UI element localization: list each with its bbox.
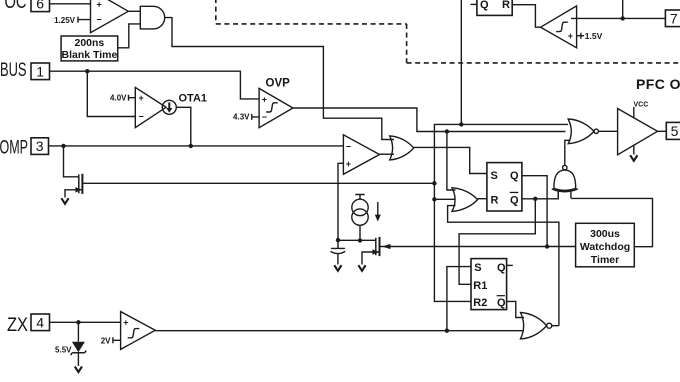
svg-text:5: 5 xyxy=(671,123,679,139)
wire U5 minus input from node xyxy=(571,17,665,19)
wire OR1 output to FF1 S xyxy=(414,147,487,173)
wire blank time box to AND input xyxy=(118,24,141,48)
wire NOR3 output to buffer xyxy=(598,130,617,132)
svg-text:BUS: BUS xyxy=(0,60,26,81)
node ZX line junction xyxy=(445,329,449,333)
ground under M2 xyxy=(358,265,365,271)
wire FF0 Q vertical down xyxy=(460,0,462,124)
node B (OVP line tee) xyxy=(445,129,449,133)
svg-text:R: R xyxy=(491,194,499,206)
pin box 1 xyxy=(31,63,50,80)
svg-text:Watchdog: Watchdog xyxy=(580,241,630,253)
dashed boundary vertical segment 2 xyxy=(406,24,408,63)
pin box 5 xyxy=(666,122,680,139)
svg-text:Blank Time: Blank Time xyxy=(61,49,117,61)
ground under C1 xyxy=(334,265,341,271)
svg-text:VCC: VCC xyxy=(634,102,649,109)
svg-text:−: − xyxy=(97,14,102,24)
svg-text:4.0V: 4.0V xyxy=(110,94,127,103)
flip-flop FF0 (top, cut off) xyxy=(477,0,512,15)
wire FF1 Q output down to watchdog line xyxy=(522,176,547,247)
svg-text:Q: Q xyxy=(497,262,506,274)
svg-text:Q: Q xyxy=(497,297,506,309)
pin box 7 xyxy=(665,10,680,27)
wire FF2 S input from ZX line xyxy=(447,267,471,331)
svg-text:R1: R1 xyxy=(473,280,487,292)
XNOR gate X1 (vertical) xyxy=(554,170,576,190)
300us watchdog timer box xyxy=(576,223,635,266)
svg-text:−: − xyxy=(346,142,351,152)
comparator U5 (1.5V, points left) xyxy=(541,6,577,48)
node FF1 Qbar junction xyxy=(533,197,537,201)
svg-text:R2: R2 xyxy=(473,297,487,309)
svg-text:−: − xyxy=(262,112,267,122)
svg-text:Q: Q xyxy=(510,194,519,206)
svg-text:+: + xyxy=(262,95,267,105)
svg-text:4.3V: 4.3V xyxy=(233,113,250,122)
wire U3 output to OR1 xyxy=(380,153,395,155)
svg-text:Q: Q xyxy=(510,170,519,182)
node watchdog line junction xyxy=(545,244,549,248)
svg-text:PFC OUT: PFC OUT xyxy=(636,76,680,92)
svg-text:2V: 2V xyxy=(101,336,111,345)
wire OR2 middle input xyxy=(434,198,455,200)
wire COMP line xyxy=(49,145,344,147)
node OR2 middle input junction xyxy=(432,197,436,201)
dashed boundary horizontal segment 2 xyxy=(407,62,680,64)
wire buffer to pin 5 xyxy=(658,130,667,132)
wire node A left and down (main Q net) xyxy=(434,124,471,301)
flip-flop FF2 (S/R1/R2) xyxy=(471,259,507,310)
wire stub left of FF0 xyxy=(471,3,477,5)
node OTA output junction xyxy=(189,144,193,148)
svg-text:S: S xyxy=(474,262,481,274)
svg-text:+: + xyxy=(346,159,351,169)
svg-text:+: + xyxy=(568,31,573,41)
wire U3 plus input down to cap node xyxy=(338,163,343,240)
NOR gate NOR2 xyxy=(521,313,547,339)
wire BUS line to OVP xyxy=(50,71,260,99)
wire ZX pin to comparator xyxy=(50,321,121,323)
arrow beside current source xyxy=(377,202,379,215)
label 1.5V xyxy=(577,33,584,39)
dashed boundary horizontal segment xyxy=(216,23,407,25)
ground under zener xyxy=(75,367,82,373)
wire node A to NOR3 top input xyxy=(461,123,568,125)
wire M2 drain to watchdog line xyxy=(380,246,576,248)
wire comparator to AND gate xyxy=(128,10,140,12)
ground under M1 xyxy=(61,198,68,204)
svg-text:1: 1 xyxy=(36,63,44,79)
comparator U3 (PWM) xyxy=(343,135,379,175)
svg-text:OMP: OMP xyxy=(0,137,28,158)
svg-text:OC: OC xyxy=(5,0,27,13)
node M1 drain junction xyxy=(432,181,436,185)
OR gate OR1 xyxy=(390,136,414,160)
svg-text:+: + xyxy=(123,317,128,327)
svg-text:3: 3 xyxy=(36,138,44,154)
comparator U6 (ZX, 2V) xyxy=(121,312,156,350)
wire junction up xyxy=(622,0,624,18)
arrowhead into M2 drain xyxy=(382,244,391,249)
ground under buffer xyxy=(633,145,635,154)
svg-text:300us: 300us xyxy=(590,228,620,240)
buffer U4 (gate driver) xyxy=(618,109,658,155)
svg-text:+: + xyxy=(97,0,102,9)
wire cap node to M2 gate xyxy=(338,239,376,241)
svg-text:OTA1: OTA1 xyxy=(179,93,208,105)
pin box 6 xyxy=(31,0,50,12)
svg-text:1.5V: 1.5V xyxy=(585,31,603,41)
svg-text:6: 6 xyxy=(36,0,44,11)
pin box 3 xyxy=(31,138,49,155)
wire FF2 Qbar to NOR2 top input xyxy=(507,301,524,317)
svg-text:7: 7 xyxy=(670,10,678,26)
OR gate OR2 xyxy=(452,188,478,212)
node COMP junction xyxy=(61,144,65,148)
svg-text:ZX: ZX xyxy=(7,315,28,336)
current source I1 xyxy=(355,195,364,200)
wire XNOR output up to NOR3 bottom input xyxy=(565,140,571,165)
comparator OVP (4.3V) xyxy=(259,88,293,127)
wire pin6 to comparator xyxy=(50,3,91,5)
wire OVP output to NOR input (long) xyxy=(293,108,566,132)
wire FF1 Qbar output to XNOR left leg xyxy=(522,191,558,199)
svg-text:4: 4 xyxy=(36,314,44,330)
transistor M1 xyxy=(78,174,80,193)
svg-text:OVP: OVP xyxy=(266,78,291,90)
AND gate U2 xyxy=(140,6,164,29)
wire node B down to OR2 top input xyxy=(447,132,456,191)
wire ZX comparator output to NOR2 xyxy=(155,330,524,332)
wire OR2 bottom input from NOR2 output xyxy=(448,206,559,326)
svg-text:Q: Q xyxy=(480,0,489,11)
wire AND output to OR gate (long) xyxy=(165,18,394,140)
node BUS junction xyxy=(85,69,89,73)
wire COMP junction to MOSFET gate xyxy=(64,146,79,177)
wire OTA1 output to COMP line xyxy=(176,107,191,146)
op-amp OTA1 xyxy=(135,87,166,127)
svg-text:Timer: Timer xyxy=(591,254,619,266)
node pin7 junction xyxy=(621,16,625,20)
node cap junction xyxy=(336,238,340,242)
zener diode D1 5.5V xyxy=(77,322,79,341)
svg-text:200ns: 200ns xyxy=(75,37,105,49)
svg-text:S: S xyxy=(491,170,498,182)
wire OR2 output to FF1 R xyxy=(478,198,487,200)
wire XNOR right leg to watchdog output xyxy=(571,198,652,246)
pin box 4 xyxy=(31,314,50,331)
NOR gate NOR3 (driver) xyxy=(568,119,594,144)
wire Qbar junction down to FF2 R1 xyxy=(459,199,535,284)
svg-text:−: − xyxy=(139,112,144,122)
dashed boundary vertical segment xyxy=(215,0,217,24)
svg-text:+: + xyxy=(139,93,144,103)
node A (FF0 Q line tee) xyxy=(459,122,463,126)
flip-flop FF1 (S/R) xyxy=(487,163,522,211)
svg-text:1.25V: 1.25V xyxy=(54,16,76,25)
wire stub FF2 Q xyxy=(507,264,513,266)
200ns blank time box xyxy=(61,36,118,61)
comparator U1 (OC, 1.25V) top cut off xyxy=(91,0,129,33)
transistor M2 xyxy=(375,238,377,255)
wire NOR2 output up (drawn with OR2 input path) xyxy=(552,325,559,327)
wire FF0 R input from comparator U5 xyxy=(512,5,540,28)
wire BUS junction down to OTA1 input xyxy=(87,71,135,116)
node current source junction xyxy=(358,238,362,242)
svg-text:R: R xyxy=(502,0,510,11)
capacitor C1 xyxy=(331,240,346,264)
svg-text:5.5V: 5.5V xyxy=(55,346,72,355)
node ZX pin junction xyxy=(76,320,80,324)
